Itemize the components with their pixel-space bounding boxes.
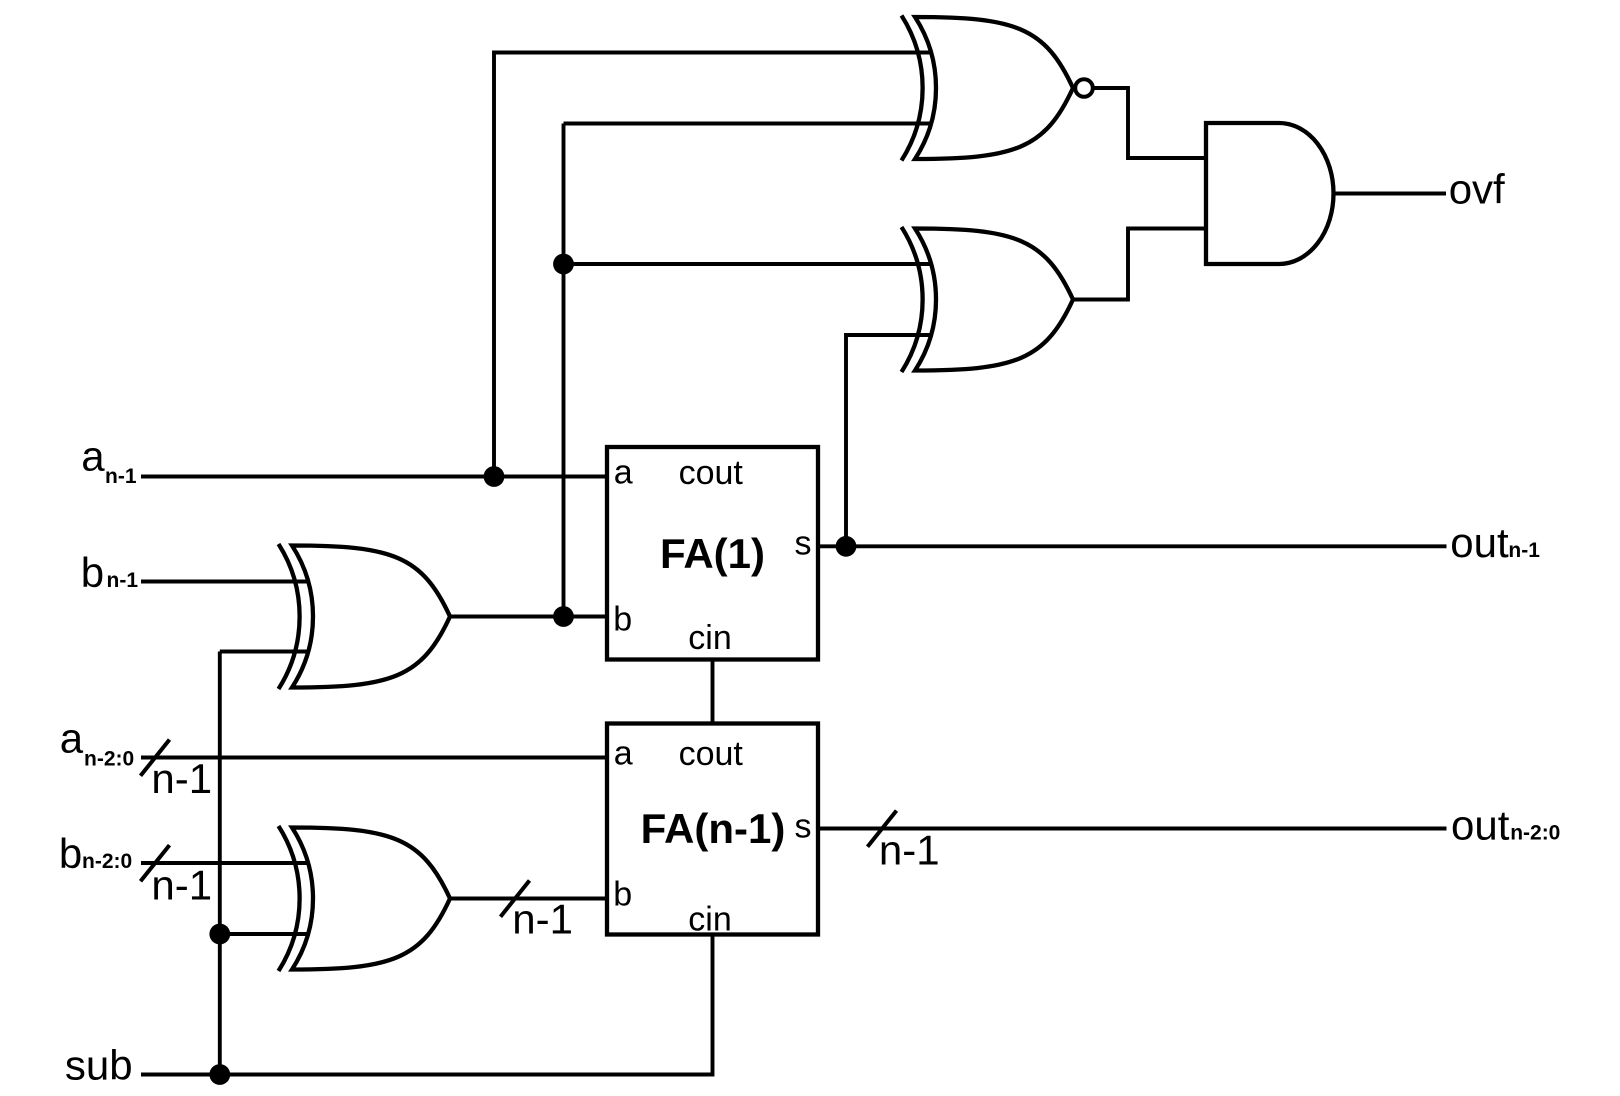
junction dot xnor-bottom/xor2-top net <box>553 254 574 275</box>
svg-text:b: b <box>613 876 632 914</box>
junction dot FA(1).s net <box>836 536 857 557</box>
svg-text:n-2:0: n-2:0 <box>84 748 134 771</box>
gate XNOR U1 bubble <box>1075 79 1093 97</box>
junction dot a_n-1 <box>484 466 505 487</box>
wire a_n-2:0 to FA(n-1).a <box>141 756 607 760</box>
gate XOR U4 (b_n-1) <box>279 544 451 689</box>
wire sub vertical to XOR1 bottom input <box>220 652 307 1075</box>
junction dot sub/XOR3 <box>209 924 230 945</box>
svg-text:a: a <box>614 735 633 773</box>
svg-text:FA(n-1): FA(n-1) <box>641 805 786 852</box>
junction dot FA(1).b net <box>553 606 574 627</box>
svg-text:n-1: n-1 <box>105 465 137 488</box>
gate XOR U5 (b_n-2:0) <box>279 826 451 971</box>
gate XNOR U1 body <box>902 16 1074 161</box>
wire vertical x=563.5 from XNOR bottom input down to FA(1).b <box>564 124 931 617</box>
wire FA(1).s to out_n-1 <box>818 544 1447 548</box>
wire sub to FA(n-1).cin <box>141 935 713 1075</box>
svg-text:n-2:0: n-2:0 <box>82 850 132 873</box>
svg-text:b: b <box>59 830 82 877</box>
FA(n-1) box <box>607 724 818 935</box>
wire XOR1 output to FA(1).b <box>450 615 607 619</box>
svg-text:a: a <box>81 433 105 480</box>
svg-text:s: s <box>795 808 812 846</box>
svg-text:out: out <box>1450 519 1509 566</box>
svg-text:n-1: n-1 <box>151 862 212 909</box>
svg-text:n-1: n-1 <box>1508 539 1540 562</box>
junction dot sub wire <box>209 1064 230 1085</box>
svg-text:cin: cin <box>688 901 731 939</box>
gate XOR U2 body <box>902 227 1074 372</box>
wire XOR3 output to FA(n-1).b <box>451 897 607 901</box>
svg-text:n-2:0: n-2:0 <box>1510 822 1560 845</box>
svg-text:s: s <box>795 525 812 563</box>
svg-text:b: b <box>613 601 632 639</box>
svg-text:cout: cout <box>679 454 744 492</box>
bus slash b_n-2:0 <box>141 845 170 881</box>
wire node an1 vertical to XNOR top input <box>494 53 930 477</box>
svg-text:ovf: ovf <box>1449 166 1505 213</box>
wire XOR2 output to AND bottom input <box>1075 229 1207 300</box>
wire FA(n-1).cout to FA(1).cin <box>711 660 715 724</box>
wire sub branch to XOR3 bottom input <box>220 932 307 936</box>
svg-text:n-1: n-1 <box>107 569 139 592</box>
wire XOR2 top input from node at (563.5,264) <box>564 262 931 266</box>
FA(1) box <box>607 447 818 660</box>
svg-text:sub: sub <box>65 1041 133 1088</box>
wire XNOR output to AND top input <box>1092 88 1206 158</box>
svg-text:cout: cout <box>679 735 744 773</box>
svg-text:a: a <box>60 715 84 762</box>
bus slash XOR3 out <box>501 881 530 917</box>
svg-text:a: a <box>614 453 633 491</box>
wire branch from s node up to XOR2 bottom input <box>846 335 930 546</box>
svg-text:FA(1): FA(1) <box>660 530 765 577</box>
wire AND output to ovf <box>1334 192 1447 196</box>
gate AND U3 <box>1206 123 1334 264</box>
wire a_n-1 to FA(1).a <box>141 475 607 479</box>
wire b_n-1 to XOR1 top input <box>141 580 307 584</box>
wire b_n-2:0 to XOR3 top input <box>141 861 307 865</box>
svg-text:n-1: n-1 <box>879 826 940 873</box>
bus slash FA(n-1).s <box>868 811 897 847</box>
wire FA(n-1).s to out_n-2:0 <box>818 827 1447 831</box>
svg-text:b: b <box>81 549 104 596</box>
svg-text:n-1: n-1 <box>512 895 573 942</box>
svg-text:out: out <box>1451 802 1510 849</box>
svg-text:cin: cin <box>688 619 731 657</box>
bus slash a_n-2:0 <box>141 740 170 776</box>
svg-text:n-1: n-1 <box>151 755 212 802</box>
